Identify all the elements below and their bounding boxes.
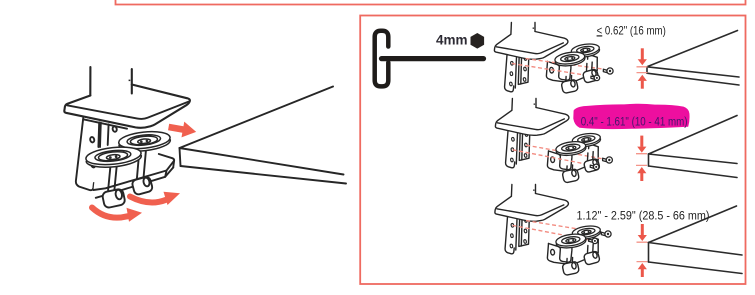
hexagon — [471, 33, 485, 49]
row3 clamp pads — [555, 224, 601, 249]
desk — [180, 87, 334, 149]
hex key — [375, 31, 389, 87]
row1 down arrow — [638, 48, 647, 65]
row1 gap tick marks — [637, 67, 648, 73]
red curved arrow left — [92, 208, 128, 218]
row2 up arrow — [637, 167, 646, 181]
row1 dashed guide lines — [512, 59, 603, 76]
row3 up arrow — [638, 263, 647, 277]
pad stems — [137, 150, 146, 179]
svg-text:1.12" - 2.59" (28.5 - 66 mm): 1.12" - 2.59" (28.5 - 66 mm) — [577, 208, 710, 222]
left thumb knob — [102, 188, 126, 208]
svg-text:0.4" - 1.61" (10 - 41 mm): 0.4" - 1.61" (10 - 41 mm) — [581, 115, 688, 129]
row2 gap tick marks — [636, 154, 647, 166]
row2 thumb knobs — [562, 152, 600, 183]
row2 desk edge wedge — [649, 116, 738, 178]
arm plate — [94, 154, 175, 195]
row3 clamp bracket — [495, 185, 569, 254]
row3 thumb knobs — [562, 244, 600, 275]
row2 clamp bracket — [495, 99, 569, 168]
red curved arrow right — [130, 197, 166, 203]
plate — [64, 85, 190, 128]
row3 desk edge wedge — [649, 206, 743, 274]
post — [89, 67, 91, 96]
right thumb knob — [131, 176, 153, 195]
row1 clamp bracket — [494, 23, 568, 92]
row3 C-clamp body — [547, 235, 598, 265]
bracket — [76, 118, 101, 190]
row2 clamp pads — [555, 132, 601, 157]
svg-text:4mm: 4mm — [436, 32, 468, 47]
row1 clamp pads — [554, 42, 600, 67]
row2 C-clamp body — [547, 142, 598, 172]
row1 desk edge wedge — [647, 31, 739, 86]
row3 down arrow — [638, 224, 647, 241]
row1 thumb knobs — [561, 62, 599, 93]
upper pad — [118, 129, 171, 153]
magenta highlight — [573, 104, 689, 129]
row1 screws — [591, 68, 613, 81]
svg-text:< 0.62" (16 mm): < 0.62" (16 mm) — [597, 23, 666, 37]
row3 screws — [589, 231, 611, 244]
lower pad — [85, 145, 142, 170]
row2 down arrow — [637, 136, 646, 153]
row3 dashed guide lines — [513, 221, 602, 240]
row2 dashed guide lines — [513, 145, 603, 165]
red block arrow — [167, 119, 197, 140]
row3 gap tick marks — [637, 242, 648, 261]
row1 up arrow — [638, 75, 647, 89]
row1 C-clamp body — [546, 53, 597, 83]
row2 screws — [590, 157, 612, 170]
